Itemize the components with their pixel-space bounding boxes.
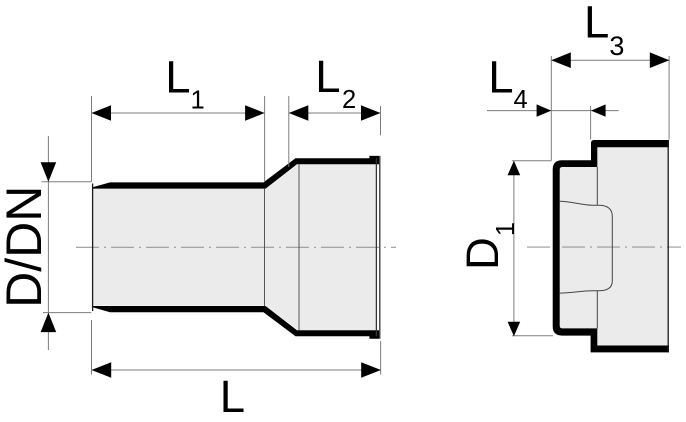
dimension L2: extension line left (288, 96, 290, 167)
svg-text:D/DN: D/DN (0, 186, 52, 308)
left view: taper start edge line (264, 189, 266, 306)
left view: centerline (76, 246, 396, 248)
dimension L4: left arrow (outside) (537, 104, 552, 116)
dimension D1: extension line bottom (512, 335, 553, 337)
right view: inner bore profile (tongue) (560, 201, 613, 293)
dimension L2: dimension line (289, 112, 381, 114)
left view: left end face line (92, 184, 94, 312)
svg-text:L3: L3 (584, 0, 624, 61)
left view: socket lip edge line (379, 156, 381, 339)
left view: socket shoulder edge line (298, 164, 300, 330)
dimension L2: left arrow (289, 105, 309, 121)
dimension L: left arrow (92, 362, 112, 378)
dimension L3: extension line right (668, 56, 670, 140)
dimension D/DN: dimension line (47, 136, 49, 350)
right view: centerline (527, 246, 681, 248)
dimension L: extension line right (380, 341, 382, 375)
dimension L4: extension line right (590, 106, 592, 140)
dimension L1: extension line left (91, 96, 93, 182)
dimension L2: right arrow (361, 105, 381, 121)
dimension L3: right arrow (650, 52, 670, 68)
dimension D/DN: bottom arrow (41, 313, 57, 333)
dimension L2: extension line right (380, 106, 382, 135)
dimension L4: dimension line (487, 110, 619, 112)
right view: body fill (591, 144, 668, 348)
dimension L3: extension line left (550, 56, 552, 160)
right view: inner step line top (596, 167, 598, 205)
left view: top outline band (93, 156, 380, 189)
left view: bottom outline band (93, 306, 380, 339)
dimension D/DN: extension line top (42, 181, 92, 183)
dimension L: dimension line (92, 369, 381, 371)
right view: inner step line bottom (596, 291, 598, 328)
dimension D1: extension line top (512, 160, 552, 162)
dimension L: extension line left (91, 320, 93, 375)
dimension D1: dimension line (513, 161, 515, 337)
right view: outline band (553, 140, 669, 352)
left view: fitting body fill (93, 164, 377, 330)
dimension L1: left arrow (92, 105, 112, 121)
svg-text:L1: L1 (165, 52, 205, 115)
svg-text:L4: L4 (488, 51, 528, 114)
svg-text:D1: D1 (457, 222, 520, 270)
dimension D1: bottom arrow (508, 322, 521, 337)
svg-text:L: L (220, 371, 245, 422)
left view: socket mouth face line (375, 158, 377, 336)
right view: right cut edge line (667, 140, 669, 352)
dimension L1: right arrow (245, 105, 265, 121)
svg-text:L2: L2 (315, 51, 356, 114)
dimension L3: left arrow (551, 52, 571, 68)
dimension D1: top arrow (508, 161, 521, 176)
dimension L: right arrow (361, 362, 381, 378)
dimension L4: right arrow (outside) (591, 104, 606, 116)
dimension L1: dimension line (92, 112, 265, 114)
right view: socket mouth fill (556, 163, 597, 331)
dimension L3: dimension line (551, 59, 669, 61)
dimension D/DN: extension line bottom (43, 312, 91, 314)
dimension L1: extension line right (264, 96, 266, 182)
dimension D/DN: top arrow (41, 162, 57, 182)
